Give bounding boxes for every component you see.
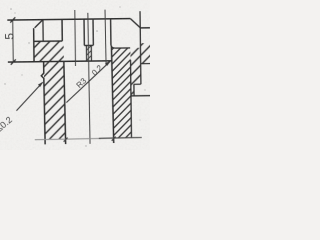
right rim lower face [141, 63, 151, 65]
screw centerline [88, 13, 90, 144]
right shoulder top surface [140, 27, 150, 29]
left block bottom [34, 40, 62, 42]
left outer wall [33, 28, 35, 62]
leader line for R3 0.2 callout [66, 61, 111, 102]
right step horizontal [134, 83, 141, 85]
screw head left edge [83, 19, 85, 45]
cavity left wall [64, 61, 66, 144]
wall below flange with relief notch [41, 62, 45, 145]
right step vertical [133, 84, 135, 96]
hatch region D: right block and lower right column [112, 48, 131, 138]
scan specks [4, 6, 145, 146]
leader line for lower-left callout [16, 82, 43, 110]
die insert right wall [130, 60, 133, 138]
screw shank left [85, 45, 87, 61]
left block right edge [61, 19, 63, 41]
left chamfer [35, 20, 43, 28]
right chamfer [130, 18, 140, 27]
pocket right wall with fillet [111, 19, 115, 48]
hatch region C: screw shank section [86, 45, 91, 60]
hatch region D2: holder ring right of insert [130, 48, 141, 96]
screw head bottom [84, 44, 93, 46]
dimension tick top [10, 17, 15, 22]
hatch region B: left wall column of die [44, 61, 65, 139]
dimension tick bottom [11, 59, 16, 64]
dimension 5: vertical dimension line [12, 20, 15, 62]
bottom dimension tick left [64, 138, 68, 142]
cavity right wall / die insert left edge [111, 47, 113, 144]
top face outline with left extension line [7, 19, 130, 21]
lower right shoulder surface [131, 95, 151, 97]
arrowhead of R3 leader [105, 60, 111, 65]
bottom dimension tick right [112, 137, 116, 141]
left block inner vertical [42, 20, 44, 42]
screw shank right [90, 45, 92, 61]
hatch region A: upper-left block of lower die plate [34, 41, 64, 62]
right outer wall / extension [139, 11, 142, 84]
dowel centerline [105, 10, 106, 66]
screw head right edge [92, 19, 94, 45]
right block top face [115, 47, 130, 49]
hatch region E: outer right rim beyond wall [141, 43, 151, 64]
bottom face of part [35, 138, 101, 139]
slot edge line above screw area [74, 10, 77, 66]
arrowhead of lower-left leader [38, 82, 43, 87]
long internal horizontal + flange bottom extension [8, 61, 112, 62]
